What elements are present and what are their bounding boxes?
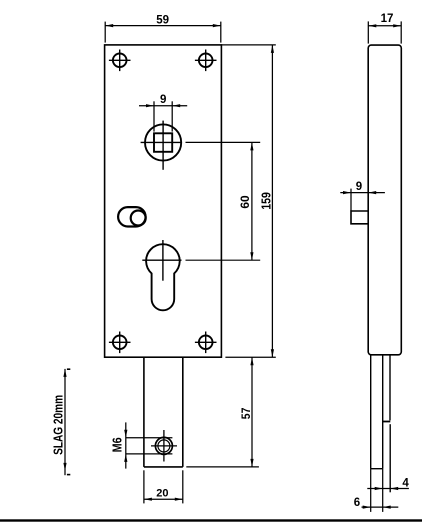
svg-text:9: 9: [160, 94, 166, 106]
dimension 20: [144, 470, 183, 503]
guide lower right edge: [389, 424, 391, 492]
svg-text:M6: M6: [110, 437, 125, 452]
dimension 60: [250, 142, 253, 260]
dimension 9 (front spindle): [139, 101, 187, 131]
lock body front view: [105, 45, 222, 357]
svg-text:57: 57: [239, 407, 253, 419]
SLAG 20mm stroke dimension: [63, 369, 70, 475]
bottom border rule: [0, 519, 422, 521]
screw hole top-right: [195, 50, 217, 72]
dimension 9 (side): [340, 189, 385, 211]
svg-text:SLAG 20mm: SLAG 20mm: [51, 395, 66, 455]
dimension 4: [367, 487, 409, 490]
svg-text:20: 20: [156, 488, 168, 500]
euro cylinder centerline horizontal: [142, 259, 260, 261]
svg-text:60: 60: [238, 195, 252, 209]
euro cylinder hole: [146, 244, 180, 310]
dimension 17: [368, 21, 401, 43]
svg-text:9: 9: [356, 181, 362, 193]
spindle centerline vertical: [162, 121, 164, 170]
spindle hub circle: [145, 124, 181, 160]
latch follower capsule: [118, 207, 146, 226]
dimension 57: [186, 357, 259, 467]
dimension M6 leader: [124, 422, 172, 468]
latch follower circle: [131, 211, 146, 226]
lock body side view: [368, 45, 401, 355]
strike rod left edge: [370, 355, 372, 469]
strike rod inner edge: [382, 355, 384, 469]
euro cylinder centerline vertical: [162, 240, 164, 281]
svg-text:159: 159: [260, 192, 274, 210]
dimension 6: [362, 506, 399, 509]
spindle centerline horizontal: [141, 141, 261, 143]
svg-text:17: 17: [381, 13, 394, 25]
M6 threaded hole: [151, 430, 177, 462]
strike rod bottom cap: [371, 468, 383, 470]
screw hole bottom-left: [109, 332, 131, 354]
spindle square hole: [154, 133, 172, 152]
screw hole bottom-right: [195, 332, 217, 354]
svg-text:6: 6: [354, 497, 360, 509]
slide tail bar: [144, 357, 183, 467]
dimension 159: [221, 45, 275, 357]
side follower tab: [351, 211, 368, 224]
guide step jog: [383, 421, 391, 423]
dimension 59: [105, 22, 221, 43]
screw hole top-left: [109, 50, 131, 72]
svg-text:4: 4: [402, 477, 409, 489]
svg-text:59: 59: [156, 14, 169, 26]
guide upper right edge: [389, 355, 391, 421]
rod extension lines: [371, 469, 383, 512]
